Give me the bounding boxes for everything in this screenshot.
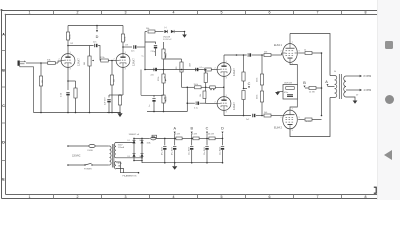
svg-text:2: 2: [114, 59, 115, 61]
svg-text:4 OHM: 4 OHM: [364, 89, 372, 92]
svg-text:7: 7: [292, 42, 293, 44]
svg-text:1k 1W: 1k 1W: [309, 92, 315, 94]
svg-text:1M: 1M: [166, 53, 168, 56]
svg-text:A: A: [325, 80, 328, 84]
svg-text:10k: 10k: [200, 94, 202, 97]
svg-text:120VAC: 120VAC: [72, 155, 81, 158]
svg-text:POWER: POWER: [84, 169, 92, 171]
svg-text:(+): (+): [164, 27, 167, 29]
svg-text:2n2: 2n2: [246, 119, 249, 121]
svg-text:FUSE: FUSE: [88, 150, 94, 152]
svg-text:D2: D2: [140, 140, 142, 142]
svg-text:3: 3: [292, 64, 293, 66]
svg-text:22u 450V: 22u 450V: [204, 146, 206, 155]
svg-text:D1: D1: [128, 140, 130, 142]
svg-text:1k 2W: 1k 2W: [175, 134, 181, 136]
svg-text:1: 1: [29, 11, 31, 15]
svg-text:2: 2: [281, 117, 282, 119]
svg-text:115mA: 115mA: [118, 146, 125, 149]
svg-text:6: 6: [269, 11, 271, 15]
svg-text:1W: 1W: [125, 45, 128, 47]
svg-text:6: 6: [269, 195, 271, 199]
svg-text:8: 8: [365, 195, 367, 199]
svg-text:D: D: [2, 140, 5, 144]
svg-text:3: 3: [125, 11, 127, 15]
svg-text:12AX7: 12AX7: [232, 102, 236, 110]
svg-text:2: 2: [215, 102, 216, 104]
svg-text:220k: 220k: [257, 95, 259, 99]
svg-text:8: 8: [365, 11, 367, 15]
svg-text:130R 2W: 130R 2W: [284, 82, 292, 84]
svg-text:2: 2: [59, 59, 60, 61]
svg-text:D: D: [96, 35, 99, 39]
svg-text:b+: b+: [142, 56, 144, 58]
svg-text:325V: 325V: [118, 145, 123, 147]
svg-text:FILAMENTOS: FILAMENTOS: [123, 174, 137, 177]
svg-text:B: B: [2, 68, 5, 72]
svg-text:470u: 470u: [284, 92, 288, 94]
svg-text:3: 3: [226, 78, 227, 80]
svg-text:C: C: [206, 127, 209, 131]
svg-text:22n: 22n: [151, 75, 154, 77]
svg-text:2: 2: [77, 195, 79, 199]
svg-text:3: 3: [292, 130, 293, 132]
svg-text:1W: 1W: [70, 43, 73, 45]
svg-text:B: B: [303, 81, 306, 85]
svg-text:150k: 150k: [194, 84, 198, 86]
svg-text:1k 1W: 1k 1W: [306, 121, 312, 123]
svg-text:12AX7: 12AX7: [77, 58, 81, 66]
svg-text:0.1u: 0.1u: [200, 67, 204, 69]
svg-text:1k 2W: 1k 2W: [192, 134, 198, 136]
svg-text:9: 9: [299, 51, 300, 53]
svg-text:1: 1: [125, 52, 126, 54]
svg-text:1: 1: [29, 195, 31, 199]
svg-text:220k: 220k: [257, 78, 259, 82]
svg-text:1N4148: 1N4148: [163, 36, 171, 38]
svg-text:C: C: [2, 104, 5, 108]
svg-text:A: A: [2, 32, 5, 36]
svg-text:0.1u: 0.1u: [194, 107, 198, 109]
svg-text:D4: D4: [140, 156, 142, 158]
svg-text:5: 5: [221, 11, 223, 15]
svg-text:5: 5: [221, 195, 223, 199]
svg-text:1: 1: [70, 52, 71, 54]
svg-text:1M: 1M: [42, 80, 44, 83]
svg-text:2: 2: [215, 68, 216, 70]
svg-text:12AX7: 12AX7: [232, 68, 236, 76]
svg-text:3: 3: [70, 69, 71, 71]
svg-text:22u 450V: 22u 450V: [219, 146, 221, 155]
svg-text:1: 1: [226, 61, 227, 63]
svg-text:8 OHM: 8 OHM: [364, 75, 372, 78]
svg-text:3: 3: [226, 112, 227, 114]
svg-text:D: D: [221, 127, 224, 131]
svg-text:3: 3: [125, 69, 126, 71]
svg-text:100k: 100k: [166, 97, 168, 101]
svg-text:1M: 1M: [113, 79, 115, 82]
svg-text:1N4007 x4: 1N4007 x4: [129, 134, 140, 136]
svg-text:10k 2W: 10k 2W: [208, 134, 215, 136]
svg-text:2uF 25V: 2uF 25V: [105, 97, 107, 105]
svg-text:250k: 250k: [158, 77, 160, 81]
svg-text:D3: D3: [128, 156, 130, 158]
svg-text:9: 9: [299, 117, 300, 119]
svg-text:47u 450V: 47u 450V: [162, 146, 164, 155]
svg-text:5k: 5k: [334, 71, 336, 73]
svg-text:EL84 1: EL84 1: [274, 44, 283, 47]
svg-text:1M: 1M: [84, 62, 86, 65]
svg-text:7: 7: [292, 109, 293, 111]
svg-text:2: 2: [77, 11, 79, 15]
svg-text:2: 2: [281, 51, 282, 53]
svg-text:1: 1: [226, 95, 227, 97]
svg-text:4: 4: [173, 11, 175, 15]
svg-text:C: C: [248, 82, 251, 86]
svg-text:22u 450V: 22u 450V: [189, 146, 191, 155]
svg-text:12AX7: 12AX7: [132, 58, 136, 66]
svg-text:7: 7: [317, 11, 319, 15]
svg-text:4: 4: [173, 195, 175, 199]
svg-text:EL84 2: EL84 2: [274, 127, 283, 130]
svg-text:1u: 1u: [149, 105, 151, 107]
svg-text:47u 450V: 47u 450V: [172, 146, 174, 155]
svg-text:7: 7: [317, 195, 319, 199]
svg-text:3: 3: [125, 195, 127, 199]
svg-text:D1 D2 x2: D1 D2 x2: [163, 39, 172, 41]
